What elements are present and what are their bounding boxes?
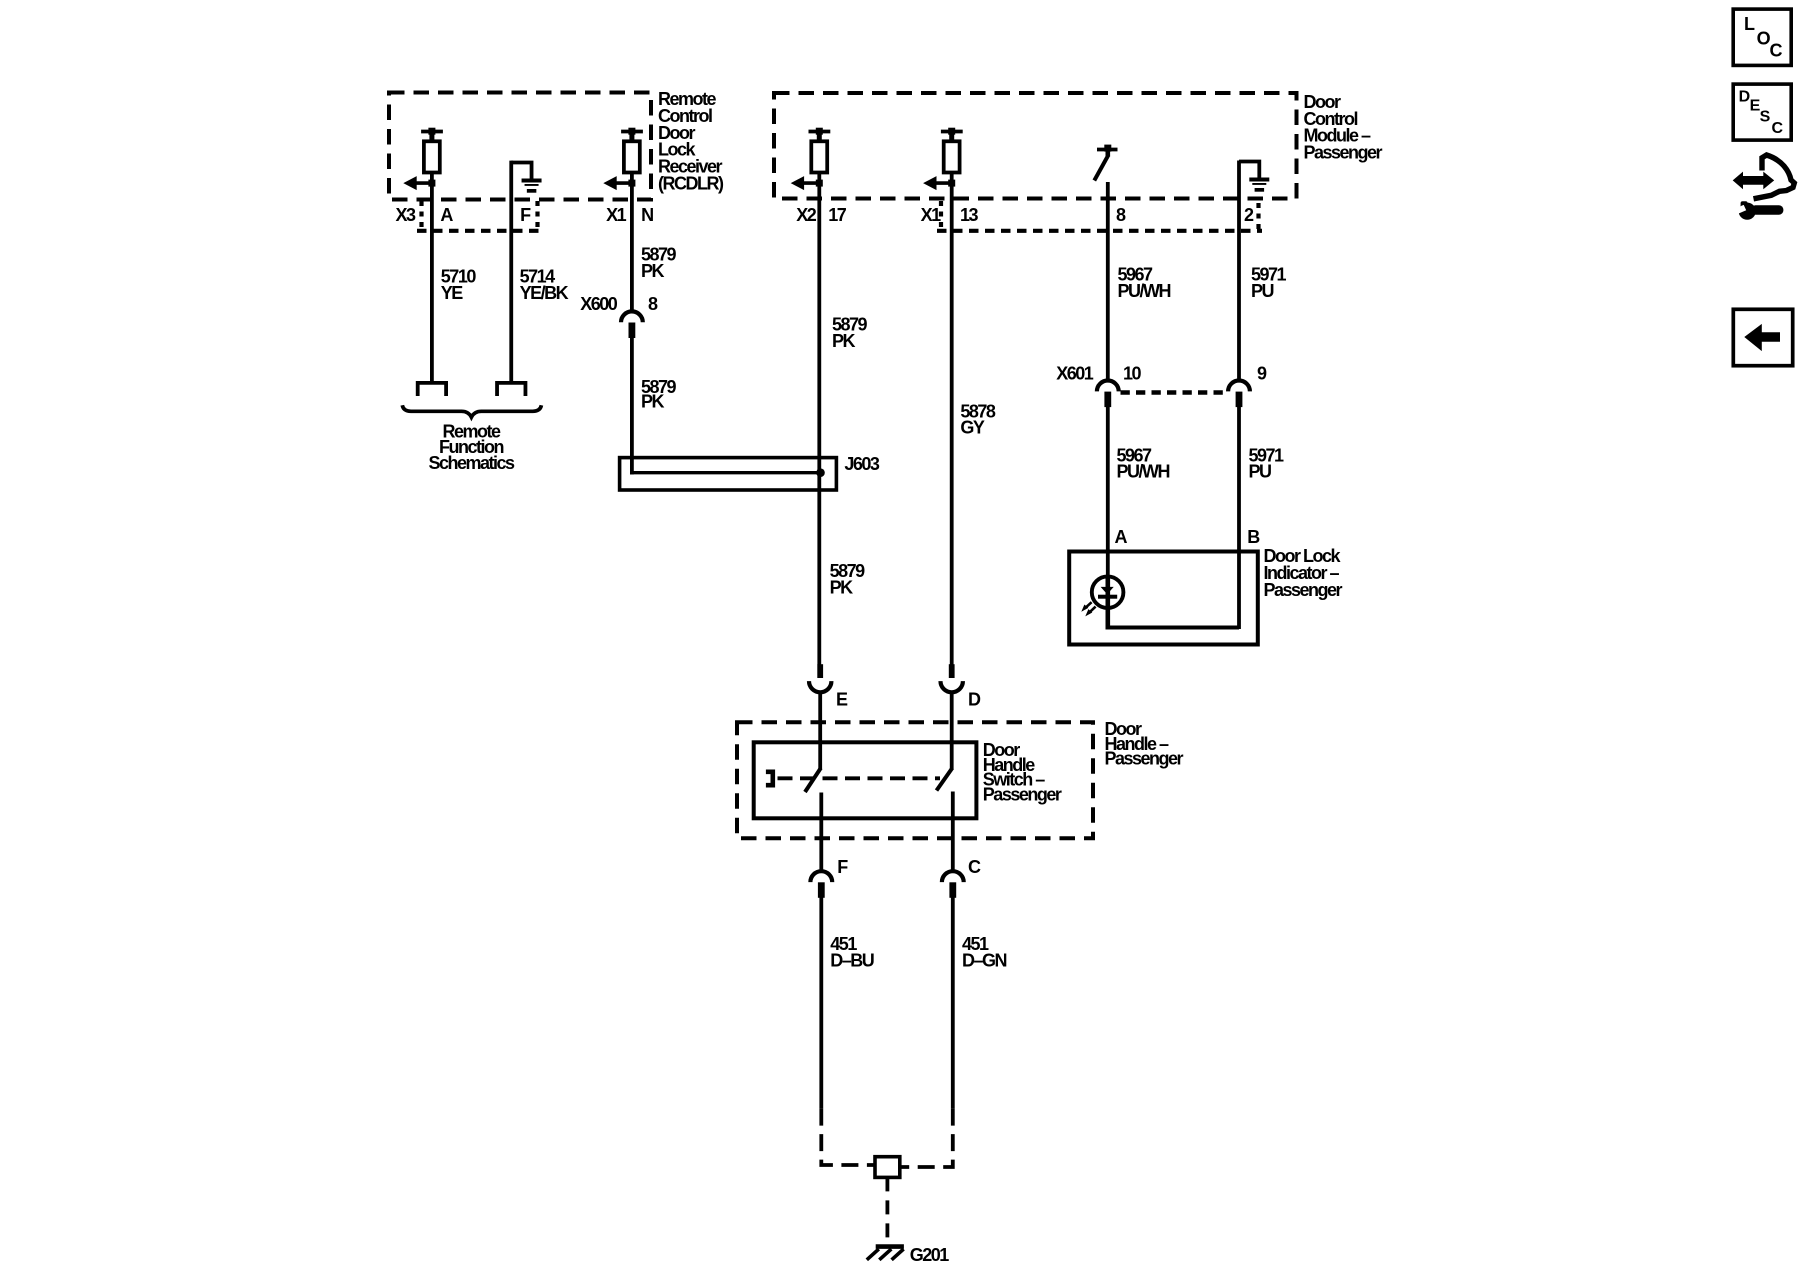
brace (Remote Function Schematics) xyxy=(402,405,541,417)
back arrow icon box xyxy=(1733,309,1792,365)
svg-text:X601: X601 xyxy=(1056,364,1094,384)
wire label 5879 PK (above J603) xyxy=(832,315,868,351)
svg-text:A: A xyxy=(440,205,453,225)
ground splice box xyxy=(875,1157,900,1178)
svg-text:D: D xyxy=(968,689,981,709)
Remote Function Schematics label xyxy=(428,421,515,473)
wire label 5710 YE xyxy=(441,267,477,303)
switch blade E-F xyxy=(805,768,821,792)
ground symbol at DCM pin 2 xyxy=(1239,162,1269,192)
wire D to switch xyxy=(950,691,954,770)
switch fixed contact C xyxy=(951,792,955,872)
svg-text:D–GN: D–GN xyxy=(962,950,1007,970)
antenna element, RCDLR pin N xyxy=(603,128,643,190)
wire label 5971 PU (lower) xyxy=(1249,446,1285,482)
svg-text:O: O xyxy=(1757,29,1771,49)
svg-text:8: 8 xyxy=(1116,205,1126,225)
switch element, DCM pin 8 xyxy=(1094,145,1117,181)
Door Handle Switch box xyxy=(754,742,977,818)
antenna element, RCDLR pin A xyxy=(403,128,443,190)
svg-text:PU/WH: PU/WH xyxy=(1117,462,1170,482)
RCDLR label xyxy=(658,89,724,194)
RCDLR module box (dashed) xyxy=(389,93,651,200)
svg-text:D: D xyxy=(1739,88,1750,105)
wire label 5967 PU/WH (upper) xyxy=(1118,265,1171,301)
wire 5879 PK (DCM 17 through J603 to E) xyxy=(817,183,821,665)
svg-text:E: E xyxy=(836,689,848,709)
diagnostic icon (car with arrows and wrench) xyxy=(1733,155,1795,220)
wire label 5971 PU (upper) xyxy=(1251,265,1287,301)
Door Lock Indicator box xyxy=(1069,552,1258,645)
svg-text:X2: X2 xyxy=(796,205,817,225)
dashed wire 451 D-BU to ground splice xyxy=(821,1109,875,1165)
wire label 5879 PK (below J603) xyxy=(830,561,866,597)
wire 451 D-GN solid xyxy=(951,887,955,1109)
wire label 5879 PK (below X600) xyxy=(641,377,677,412)
svg-text:13: 13 xyxy=(960,205,979,225)
svg-text:8: 8 xyxy=(648,294,658,314)
switch link bracket xyxy=(766,772,773,785)
wire 5967 PU/WH (X601 to indicator A) xyxy=(1106,397,1110,578)
svg-text:L: L xyxy=(1744,14,1755,34)
DCM label xyxy=(1304,92,1383,163)
DCM pin labels xyxy=(796,205,1254,225)
connector X3 dotted box xyxy=(417,201,542,231)
svg-text:X600: X600 xyxy=(580,294,618,314)
svg-text:G201: G201 xyxy=(910,1245,950,1265)
svg-text:PU/WH: PU/WH xyxy=(1118,281,1171,301)
svg-text:N: N xyxy=(641,205,653,225)
off-page connector under wire 5710 xyxy=(418,383,446,396)
svg-text:D–BU: D–BU xyxy=(830,950,874,970)
svg-text:GY: GY xyxy=(960,418,985,438)
LOC icon box xyxy=(1733,9,1791,65)
svg-text:YE: YE xyxy=(441,283,464,303)
switch mechanical link (dashed) xyxy=(778,776,941,780)
svg-text:Passenger: Passenger xyxy=(1105,749,1184,769)
DCM connector dotted box xyxy=(937,201,1262,231)
ground symbol at RCDLR pin F xyxy=(511,163,541,193)
X600 label xyxy=(580,294,658,314)
inline connector C xyxy=(942,871,964,898)
LED lamp xyxy=(1081,575,1123,630)
svg-text:F: F xyxy=(520,205,531,225)
svg-text:J603: J603 xyxy=(844,454,880,474)
wire 5971 PU (DCM 2 to X601) xyxy=(1237,161,1241,381)
indicator pin labels A B xyxy=(1115,527,1261,547)
svg-text:C: C xyxy=(1770,41,1783,61)
ground G201 symbol xyxy=(867,1247,904,1260)
DESC icon box xyxy=(1733,84,1791,140)
wire 5971 PU (X601 to indicator B) xyxy=(1237,397,1241,630)
svg-text:9: 9 xyxy=(1257,364,1267,384)
wire label 451 D-GN xyxy=(962,934,1007,970)
indicator internal bottom wire xyxy=(1108,626,1239,630)
wire RCDLR pin F lead xyxy=(509,161,513,383)
svg-text:PK: PK xyxy=(832,331,856,351)
svg-text:Passenger: Passenger xyxy=(983,784,1062,804)
Door Handle Switch label xyxy=(983,740,1062,804)
inline connector X601 pin 10 xyxy=(1097,381,1119,408)
inline connector D xyxy=(941,664,963,692)
junction dot in J603 xyxy=(816,468,825,477)
svg-text:(RCDLR): (RCDLR) xyxy=(658,174,724,194)
svg-text:X3: X3 xyxy=(395,205,416,225)
inline connector X601 pin 9 xyxy=(1228,381,1250,408)
Door Control Module box (dashed) xyxy=(774,93,1297,199)
dashed wire splice to G201 xyxy=(886,1177,890,1245)
wire label 5878 GY xyxy=(960,401,996,437)
inline connector F xyxy=(810,871,832,898)
wire label 5879 PK (above X600) xyxy=(641,245,677,281)
svg-text:A: A xyxy=(1115,527,1128,547)
svg-text:F: F xyxy=(837,857,848,877)
X601 labels xyxy=(1056,364,1267,384)
pin labels X3 A F xyxy=(395,205,653,225)
wire E to switch xyxy=(818,691,822,770)
dashed wire 451 D-GN to ground splice xyxy=(900,1109,953,1167)
svg-text:17: 17 xyxy=(828,205,847,225)
Door Lock Indicator label xyxy=(1264,546,1343,600)
svg-text:PU: PU xyxy=(1251,281,1274,301)
svg-text:2: 2 xyxy=(1244,205,1254,225)
svg-text:PK: PK xyxy=(641,392,665,412)
inline connector X600 pin 8 xyxy=(621,311,643,338)
antenna element, DCM pin 13 xyxy=(923,128,963,190)
E D labels xyxy=(836,689,981,709)
wire label 5714 YE/BK xyxy=(520,267,569,303)
svg-text:X1: X1 xyxy=(606,205,627,225)
wire label 5967 PU/WH (lower) xyxy=(1117,446,1170,482)
wire 451 D-BU solid xyxy=(819,887,823,1109)
svg-text:PK: PK xyxy=(830,577,854,597)
svg-text:PK: PK xyxy=(641,261,665,281)
wire 5879 PK (X600 to J603) xyxy=(630,336,634,475)
Door Handle dashed box xyxy=(737,722,1093,838)
wire label 451 D-BU xyxy=(830,934,874,970)
switch blade D-C xyxy=(937,768,953,791)
wire 5878 GY (DCM 13 to D) xyxy=(950,183,954,665)
off-page connector under wire 5714 xyxy=(497,383,525,396)
X601 dashed link xyxy=(1121,390,1228,395)
svg-text:C: C xyxy=(968,857,981,877)
svg-text:Passenger: Passenger xyxy=(1264,580,1343,600)
svg-text:B: B xyxy=(1247,527,1260,547)
wire 5710 (pin A to off-page) xyxy=(430,183,434,383)
svg-text:PU: PU xyxy=(1249,462,1272,482)
F C labels xyxy=(837,857,981,877)
svg-text:YE/BK: YE/BK xyxy=(520,283,569,303)
antenna element, DCM pin 17 xyxy=(791,128,831,190)
svg-text:X1: X1 xyxy=(921,205,942,225)
svg-text:Schematics: Schematics xyxy=(428,453,515,473)
wire 5879 PK (pin N to X600) xyxy=(630,183,634,311)
svg-text:10: 10 xyxy=(1123,364,1142,384)
switch fixed contact F xyxy=(819,793,823,872)
wire 5967 PU/WH (DCM 8 to X601) xyxy=(1106,182,1110,380)
inline connector E xyxy=(809,664,831,692)
Door Handle label xyxy=(1105,719,1184,769)
splice pack J603 xyxy=(620,458,837,490)
svg-text:Passenger: Passenger xyxy=(1304,143,1383,163)
